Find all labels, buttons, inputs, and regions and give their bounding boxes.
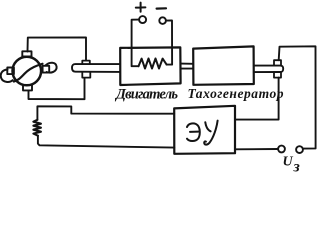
ЭУ glyph Э	[187, 123, 200, 141]
DC machine armature circle	[12, 57, 41, 86]
label Uз	[283, 154, 300, 175]
bottom brush	[23, 85, 32, 90]
wire from armature top brush up and over to left shaft coupling	[28, 37, 87, 60]
coupling nub above left shaft	[82, 61, 90, 64]
− terminal circle	[159, 17, 166, 24]
svg-text:Тахогенератор: Тахогенератор	[188, 86, 284, 101]
resistor R zigzag	[33, 120, 41, 136]
ЭУ box	[174, 106, 235, 154]
Uз right terminal circle	[296, 146, 303, 153]
field winding zigzag inside motor box	[139, 59, 167, 69]
wire from right coupling up over to Uз right terminal	[279, 46, 316, 148]
shaft between motor box and tachogenerator	[181, 64, 193, 69]
top brush	[22, 51, 31, 56]
feedback wire ЭУ upper left to resistor R top	[37, 106, 174, 120]
motor box (Двигатель)	[120, 47, 180, 85]
minus sign	[157, 7, 166, 10]
tachogenerator box	[193, 46, 254, 84]
ЭУ glyph У	[204, 121, 217, 145]
svg-text:Двигатель: Двигатель	[114, 87, 178, 103]
right ear loop	[46, 63, 57, 73]
shaft from tachogenerator to right coupling	[254, 66, 283, 73]
+ terminal circle	[139, 16, 146, 23]
right brush tab	[43, 66, 50, 73]
wire − terminal to winding right end	[166, 21, 172, 65]
wire + terminal to winding left end	[132, 20, 140, 67]
svg-text:з: з	[293, 159, 300, 176]
armature S-curve winding mark	[14, 64, 43, 82]
wire from armature bottom brush down and over to left shaft coupling	[29, 78, 85, 99]
wire ЭУ lower right to Uз left terminal	[235, 148, 278, 150]
svg-text:U: U	[283, 154, 294, 169]
wire resistor bottom to ЭУ lower left	[38, 136, 174, 148]
shaft between armature and motor box	[72, 64, 120, 72]
coupling nub above right shaft	[274, 60, 281, 65]
left brush tab	[7, 68, 14, 75]
coupling nub below left shaft	[82, 72, 90, 78]
wire from right coupling down to ЭУ right upper input	[235, 78, 279, 120]
Uз left terminal circle	[278, 146, 285, 153]
left ear loop	[1, 70, 13, 82]
coupling nub below right shaft	[274, 72, 281, 78]
plus sign	[136, 3, 146, 12]
